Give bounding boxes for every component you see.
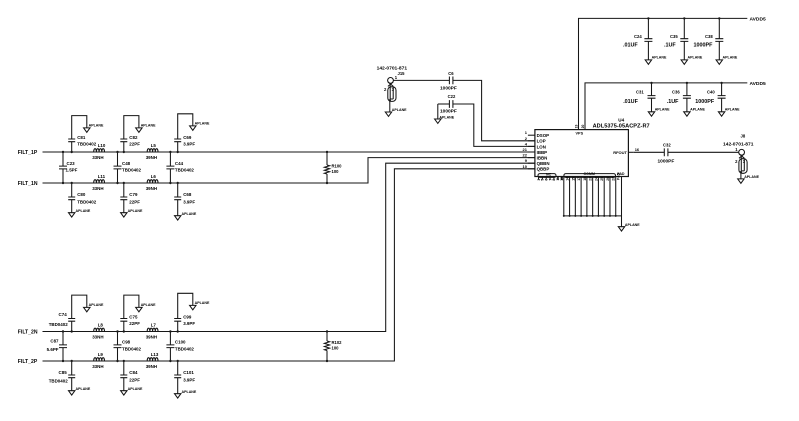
- svg-text:3.9PF: 3.9PF: [183, 199, 195, 204]
- svg-text:L8: L8: [98, 323, 104, 328]
- svg-text:33NH: 33NH: [92, 335, 103, 340]
- wire RFOUT to C32: [634, 151, 665, 153]
- svg-text:1000PF: 1000PF: [658, 159, 675, 165]
- svg-text:33NH: 33NH: [92, 155, 103, 160]
- svg-text:C99: C99: [183, 315, 192, 320]
- pin 21 IBBP: [523, 147, 548, 155]
- pin 18 COMM: [583, 177, 588, 217]
- svg-text:APLANE: APLANE: [725, 107, 740, 111]
- pin 5 NC stub: [541, 177, 545, 181]
- svg-text:APLANE: APLANE: [195, 301, 210, 305]
- svg-text:AVDD5: AVDD5: [750, 17, 766, 23]
- node FILT_2P: [18, 359, 38, 365]
- pin 10 QBBP: [523, 164, 550, 172]
- svg-text:18: 18: [583, 177, 587, 181]
- capacitor C82 22PF: [120, 116, 140, 154]
- pin group NC bracket: [538, 172, 556, 177]
- svg-text:.1UF: .1UF: [664, 43, 676, 49]
- capacitor C38 1000PF: [694, 17, 724, 60]
- node FILT_1P: [18, 150, 38, 156]
- svg-text:C32: C32: [663, 142, 671, 147]
- svg-text:APLANE: APLANE: [89, 124, 104, 128]
- pin 15 COMM: [571, 177, 576, 217]
- svg-text:3.9PF: 3.9PF: [183, 142, 195, 147]
- svg-text:26: 26: [606, 177, 610, 181]
- svg-text:COMM: COMM: [584, 172, 595, 176]
- svg-text:22PF: 22PF: [129, 377, 140, 382]
- capacitor C80 TBD0402: [68, 182, 97, 213]
- svg-text:APLANE: APLANE: [625, 223, 640, 227]
- svg-text:R102: R102: [332, 340, 343, 345]
- svg-text:C22: C22: [448, 94, 456, 99]
- svg-text:IBBN: IBBN: [537, 156, 548, 161]
- inductor L6 39NH: [146, 174, 158, 191]
- svg-text:J15: J15: [398, 71, 406, 76]
- svg-text:13: 13: [560, 177, 564, 181]
- svg-text:FILT_1N: FILT_1N: [18, 181, 38, 187]
- svg-text:33NH: 33NH: [92, 364, 103, 369]
- capacitor C35 .1UF: [664, 17, 688, 60]
- ground APLANE: [718, 107, 740, 116]
- svg-text:AVDD5: AVDD5: [750, 81, 766, 87]
- svg-text:22PF: 22PF: [129, 321, 140, 326]
- svg-text:.1UF: .1UF: [667, 99, 679, 105]
- inductor L11 33NH: [92, 174, 105, 191]
- svg-text:C44: C44: [175, 161, 184, 166]
- svg-text:TBD0402: TBD0402: [175, 168, 195, 173]
- capacitor C40 1000PF: [695, 82, 725, 112]
- svg-text:TBD0402: TBD0402: [77, 142, 97, 147]
- svg-text:ADL5375-05ACPZ-R7: ADL5375-05ACPZ-R7: [593, 124, 650, 130]
- pin 16 RFOUT: [613, 147, 640, 155]
- svg-text:1.5PF: 1.5PF: [66, 168, 78, 173]
- svg-text:5.6PF: 5.6PF: [47, 347, 59, 352]
- svg-text:APLANE: APLANE: [392, 108, 407, 112]
- svg-text:VPS: VPS: [576, 131, 584, 135]
- capacitor C36 .1UF: [667, 82, 691, 112]
- svg-text:39NH: 39NH: [146, 335, 157, 340]
- inductor L8 33NH: [92, 323, 104, 340]
- ground APLANE: [136, 124, 156, 133]
- pin 3 NC stub: [537, 177, 541, 181]
- svg-text:3.9PF: 3.9PF: [183, 377, 195, 382]
- ground APLANE: [136, 303, 156, 312]
- svg-text:C36: C36: [672, 90, 680, 95]
- inductor L5 39NH: [146, 143, 158, 160]
- op-amp U4 ADL5375-05ACPZ-R7 (quadrature modulator): [535, 118, 650, 177]
- ground APLANE: [121, 387, 143, 395]
- svg-text:17: 17: [577, 177, 581, 181]
- svg-text:L5: L5: [151, 143, 157, 148]
- ground APLANE: [84, 124, 104, 133]
- svg-text:24: 24: [594, 177, 598, 181]
- capacitor C99 3.9PF: [174, 293, 195, 332]
- svg-text:APLANE: APLANE: [744, 175, 759, 179]
- svg-text:APLANE: APLANE: [439, 115, 454, 119]
- svg-text:C85: C85: [59, 370, 68, 375]
- svg-text:C35: C35: [670, 34, 678, 39]
- wire FILT_2N to IC pin 9: [43, 163, 535, 331]
- svg-text:C101: C101: [183, 370, 194, 375]
- pin 1 DSOP: [525, 130, 549, 138]
- svg-text:APLANE: APLANE: [688, 55, 703, 59]
- svg-text:C31: C31: [636, 90, 644, 95]
- inductor L7 39NH: [146, 323, 158, 340]
- svg-text:C82: C82: [129, 135, 138, 140]
- svg-text:1000PF: 1000PF: [694, 43, 714, 49]
- pin EP PAD wire: [617, 172, 622, 226]
- svg-text:22PF: 22PF: [129, 199, 140, 204]
- svg-text:APLANE: APLANE: [655, 107, 670, 111]
- svg-text:FILT_1P: FILT_1P: [18, 150, 38, 156]
- capacitor C74 TBD0402: [49, 295, 87, 333]
- ground APLANE: [681, 55, 703, 64]
- svg-text:FILT_2N: FILT_2N: [18, 330, 38, 336]
- ground APLANE: [738, 175, 760, 183]
- svg-text:L6: L6: [151, 174, 157, 179]
- svg-text:33NH: 33NH: [92, 186, 103, 191]
- pin name VPS: [576, 131, 584, 135]
- svg-text:C75: C75: [129, 315, 138, 320]
- ground APLANE: [385, 108, 407, 116]
- node FILT_1N: [18, 181, 38, 187]
- pin group COMM bracket: [564, 172, 616, 177]
- svg-text:100: 100: [332, 169, 340, 174]
- svg-text:APLANE: APLANE: [141, 124, 156, 128]
- ground APLANE: [121, 209, 143, 217]
- svg-text:APLANE: APLANE: [652, 55, 667, 59]
- pin 9 QBBN: [525, 158, 550, 166]
- inductor L9 33NH: [92, 352, 104, 369]
- svg-text:1000PF: 1000PF: [440, 85, 457, 91]
- svg-text:22: 22: [523, 153, 528, 158]
- wire COMM bus: [564, 215, 622, 217]
- capacitor C22 1000PF: [440, 94, 457, 115]
- svg-text:NC: NC: [546, 172, 552, 176]
- pin 22 IBBN: [523, 153, 548, 161]
- ground APLANE: [84, 303, 104, 312]
- pin 20 VPS: [581, 125, 585, 129]
- svg-text:APLANE: APLANE: [141, 303, 156, 307]
- pin 7 NC stub: [548, 177, 552, 181]
- svg-text:21: 21: [523, 147, 528, 152]
- capacitor C85 TBD0402: [49, 360, 76, 391]
- svg-text:23: 23: [589, 177, 593, 181]
- svg-text:15: 15: [571, 177, 575, 181]
- svg-text:C6: C6: [448, 71, 454, 76]
- capacitor C84 22PF: [120, 360, 140, 391]
- ground APLANE: [716, 55, 738, 64]
- capacitor C79 22PF: [120, 182, 140, 213]
- wire AVDD rail 2 to IC pin 20 (VPS): [585, 83, 747, 130]
- svg-text:C74: C74: [59, 312, 68, 317]
- wire to C22: [438, 103, 450, 105]
- pin 24 COMM: [594, 177, 599, 217]
- svg-text:L9: L9: [98, 352, 104, 357]
- ground APLANE: [175, 212, 197, 220]
- pin 27 COMM: [612, 177, 617, 217]
- wire FILT_1P to IC pin 21: [43, 151, 535, 153]
- pin 8 NC stub: [552, 177, 556, 181]
- svg-text:C81: C81: [77, 135, 86, 140]
- svg-text:L13: L13: [151, 352, 159, 357]
- svg-text:C48: C48: [122, 161, 131, 166]
- wire C32 to J8: [668, 151, 739, 153]
- svg-text:C24: C24: [634, 34, 642, 39]
- wire C6 to IC pin 2 (LOP): [453, 80, 535, 140]
- svg-text:APLANE: APLANE: [690, 107, 705, 111]
- pin 6 NC stub: [545, 177, 549, 181]
- svg-text:APLANE: APLANE: [195, 122, 210, 126]
- wire C22 to IC pin 4 (LON): [453, 104, 535, 146]
- svg-text:APLANE: APLANE: [76, 209, 91, 213]
- svg-text:.01UF: .01UF: [623, 43, 638, 49]
- svg-text:PAD: PAD: [617, 172, 621, 180]
- capacitor C98 TBD0402: [114, 330, 142, 362]
- svg-text:RFOUT: RFOUT: [613, 150, 627, 155]
- svg-text:C100: C100: [175, 340, 186, 345]
- svg-text:TBD0402: TBD0402: [77, 199, 97, 204]
- svg-text:20: 20: [581, 125, 585, 129]
- svg-text:APLANE: APLANE: [128, 209, 143, 213]
- svg-text:FILT_2P: FILT_2P: [18, 359, 38, 365]
- capacitor C81 TBD0402: [68, 116, 97, 154]
- svg-text:3.9PF: 3.9PF: [183, 321, 195, 326]
- capacitor C100 TBD0402: [166, 330, 194, 362]
- svg-text:TBD0402: TBD0402: [175, 346, 195, 351]
- svg-text:C68: C68: [183, 192, 192, 197]
- node FILT_2N: [18, 330, 38, 336]
- svg-text:L10: L10: [98, 143, 106, 148]
- pin 12 NC stub: [560, 177, 564, 181]
- ground APLANE: [645, 55, 667, 64]
- svg-text:100: 100: [332, 346, 340, 351]
- svg-text:27: 27: [612, 177, 616, 181]
- pin 2 LOP: [525, 136, 546, 144]
- svg-text:L11: L11: [98, 174, 106, 179]
- svg-text:C98: C98: [122, 340, 131, 345]
- resistor R102 100: [324, 330, 342, 362]
- capacitor C101 3.9PF: [174, 360, 195, 394]
- svg-text:10: 10: [523, 164, 528, 169]
- pin 19 VPS: [574, 125, 578, 129]
- svg-text:TBD0402: TBD0402: [122, 168, 142, 173]
- wire J15 to C6: [393, 79, 449, 81]
- ground APLANE: [69, 387, 91, 395]
- capacitor C44 TBD0402: [166, 151, 194, 184]
- svg-text:39NH: 39NH: [146, 155, 157, 160]
- svg-text:.01UF: .01UF: [623, 99, 638, 105]
- capacitor C75 22PF: [120, 295, 140, 333]
- ground APLANE: [190, 122, 210, 131]
- svg-text:QBBN: QBBN: [537, 161, 550, 166]
- capacitor C32 1000PF: [658, 142, 675, 164]
- svg-text:LOP: LOP: [537, 139, 546, 144]
- svg-text:TBD0402: TBD0402: [122, 346, 142, 351]
- capacitor C68 3.9PF: [174, 182, 195, 216]
- svg-text:C84: C84: [129, 370, 138, 375]
- svg-text:APLANE: APLANE: [723, 55, 738, 59]
- capacitor C48 TBD0402: [114, 151, 142, 184]
- svg-text:APLANE: APLANE: [128, 387, 143, 391]
- pin 4 LON: [525, 141, 546, 149]
- ground APLANE: [684, 107, 706, 116]
- connector J15 142-0701-871: [377, 65, 408, 112]
- pin 25 COMM: [600, 177, 605, 217]
- svg-text:C80: C80: [77, 192, 86, 197]
- svg-text:C87: C87: [50, 339, 59, 344]
- pin 14 COMM: [566, 177, 571, 217]
- wire FILT_2P to IC pin 10: [43, 169, 535, 361]
- ground APLANE: [175, 390, 197, 398]
- pin 13 COMM: [560, 177, 565, 217]
- ground APLANE: [190, 301, 210, 310]
- svg-text:APLANE: APLANE: [89, 303, 104, 307]
- pin 17 COMM: [577, 177, 582, 217]
- svg-text:R100: R100: [332, 163, 343, 168]
- ground APLANE (C22 left): [435, 104, 455, 123]
- svg-text:DSOP: DSOP: [537, 133, 550, 138]
- capacitor C24 .01UF: [623, 17, 652, 60]
- svg-text:1000PF: 1000PF: [695, 99, 715, 105]
- svg-text:C38: C38: [705, 34, 713, 39]
- capacitor C31 .01UF: [623, 82, 655, 112]
- svg-text:LON: LON: [537, 144, 546, 149]
- pin 26 COMM: [606, 177, 611, 217]
- capacitor C6 1000PF: [440, 71, 457, 91]
- svg-text:TBD0402: TBD0402: [49, 378, 69, 383]
- node AVDD5 (rail 1): [750, 17, 766, 23]
- ground APLANE: [648, 107, 670, 116]
- svg-text:25: 25: [600, 177, 604, 181]
- svg-text:14: 14: [566, 177, 570, 181]
- svg-text:U4: U4: [618, 118, 624, 123]
- svg-text:39NH: 39NH: [146, 186, 157, 191]
- svg-text:1000PF: 1000PF: [440, 109, 457, 115]
- inductor L10 33NH: [92, 143, 106, 160]
- svg-text:TBD0402: TBD0402: [49, 322, 69, 327]
- inductor L13 39NH: [146, 352, 159, 369]
- svg-text:APLANE: APLANE: [182, 212, 197, 216]
- pin name PAD: [617, 172, 625, 176]
- capacitor C87 5.6PF: [47, 330, 67, 362]
- svg-text:C23: C23: [67, 161, 76, 166]
- ground APLANE: [69, 209, 91, 217]
- svg-text:APLANE: APLANE: [76, 387, 91, 391]
- pin 23 COMM: [589, 177, 594, 217]
- svg-text:APLANE: APLANE: [182, 390, 197, 394]
- svg-text:16: 16: [635, 147, 640, 152]
- svg-text:22PF: 22PF: [129, 142, 140, 147]
- node AVDD5 (rail 2): [750, 81, 766, 87]
- svg-text:39NH: 39NH: [146, 364, 157, 369]
- pin 11 NC stub: [556, 177, 560, 181]
- wire AVDD rail 1 to IC pin 19 (VPS): [579, 18, 748, 129]
- svg-text:142-0701-871: 142-0701-871: [723, 141, 754, 147]
- svg-text:C40: C40: [707, 90, 715, 95]
- svg-text:19: 19: [574, 125, 578, 129]
- svg-text:C69: C69: [183, 135, 192, 140]
- wire FILT_1N to IC pin 22: [43, 158, 535, 183]
- svg-text:IBBP: IBBP: [537, 150, 548, 155]
- capacitor C69 3.9PF: [174, 114, 195, 153]
- svg-text:QBBP: QBBP: [537, 167, 550, 172]
- svg-text:C79: C79: [129, 192, 138, 197]
- resistor R100 100: [324, 151, 342, 184]
- capacitor C23 1.5PF: [59, 151, 78, 184]
- connector J8 142-0701-871: [723, 134, 754, 179]
- ground APLANE (COMM): [618, 223, 640, 231]
- svg-text:J8: J8: [741, 134, 746, 139]
- svg-text:L7: L7: [151, 323, 157, 328]
